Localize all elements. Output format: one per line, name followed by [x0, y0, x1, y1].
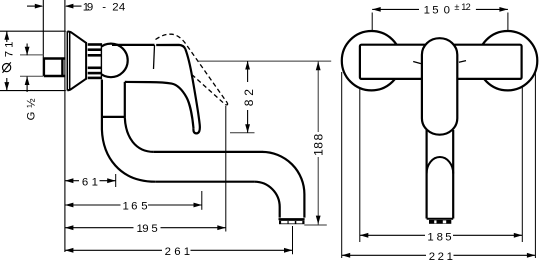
extension tick for 165 — [201, 191, 203, 210]
handle lower edge sweeping back to body — [125, 82, 194, 128]
spout column left edge — [101, 80, 103, 130]
right wall escutcheon — [478, 31, 537, 90]
wall line — [42, 0, 44, 57]
escutcheon cone — [67, 31, 86, 43]
dimension 61 — [65, 180, 79, 182]
spout bottom run — [155, 181, 254, 183]
flange bottom extension line — [0, 90, 66, 92]
dimension 195 — [65, 227, 134, 229]
185 extension lines — [359, 80, 361, 242]
left wall escutcheon — [342, 31, 401, 90]
spout end outer curve — [262, 152, 304, 218]
body column (front) left edge — [426, 130, 428, 219]
svg-text:±12: ±12 — [454, 2, 470, 12]
aerator hatched band (left view) — [279, 220, 305, 224]
spout outer bend — [102, 130, 155, 182]
spout end inner curve — [254, 182, 279, 218]
handle tick left — [413, 62, 421, 64]
dashed raised handle lower and tip — [193, 75, 228, 105]
G1/2 extension lines — [20, 54, 44, 56]
svg-text:185: 185 — [427, 231, 451, 243]
extension line for 195 (raised handle tip) — [225, 106, 227, 232]
150 extension lines — [371, 13, 373, 32]
dimension 19-24 — [27, 5, 82, 7]
dimension 185 — [360, 234, 425, 236]
handle front edge descending to tip — [185, 49, 200, 133]
handle capsule — [422, 38, 457, 135]
diameter symbol — [3, 64, 11, 72]
dimension 221 — [342, 254, 426, 256]
svg-text:150: 150 — [424, 4, 450, 16]
cone mouth edge — [85, 42, 87, 80]
body column (front) right edge — [452, 130, 454, 219]
221 extension lines (escutcheon outer edges) — [341, 72, 343, 258]
dimension G1/2 — [26, 44, 28, 56]
dashed raised handle arc and front — [156, 34, 228, 102]
extension tick for 61 at spout axis — [115, 174, 117, 187]
spout inner bend — [125, 117, 154, 151]
lever joint line — [154, 45, 155, 69]
dimension 165 — [65, 204, 121, 206]
svg-text:165: 165 — [123, 200, 148, 212]
ball joint circle — [94, 44, 128, 78]
union nut right edge — [100, 43, 102, 79]
dimension 188 bottom extension — [304, 224, 327, 226]
union nut bars — [88, 45, 102, 78]
dimension 261 — [65, 249, 162, 251]
G1/2 pipe stub square — [44, 59, 66, 77]
dimension 150 +-12 — [372, 8, 419, 10]
svg-text:221: 221 — [429, 251, 453, 263]
spout top run — [154, 151, 262, 153]
handle tick right — [459, 61, 466, 63]
spout outlet bottom line — [279, 218, 305, 220]
svg-text:19 - 24: 19 - 24 — [83, 2, 125, 14]
svg-text:188: 188 — [311, 134, 325, 156]
extension line for 261 (outlet axis) — [292, 226, 294, 254]
body top edge — [112, 44, 155, 46]
aerator hatched band (front view) — [429, 220, 451, 224]
escutcheon face plate — [66, 31, 68, 90]
column bottom line — [427, 218, 454, 220]
spout swivel joint line — [102, 116, 125, 118]
flange top extension line — [0, 30, 66, 32]
column dome arc — [427, 157, 454, 174]
spout column right edge — [124, 82, 126, 118]
handle top edge — [156, 45, 185, 49]
union nut body — [88, 43, 102, 80]
dimension 82 — [247, 61, 249, 82]
svg-text:195: 195 — [137, 223, 158, 235]
dimension 82 bottom extension — [230, 132, 255, 134]
dimension 188 — [317, 61, 319, 132]
svg-text:G ½: G ½ — [25, 98, 37, 121]
svg-text:261: 261 — [165, 246, 191, 258]
mixer body bar — [360, 45, 522, 79]
dimension dia 71 — [6, 31, 8, 42]
shared top extension line (82 and 188) — [197, 60, 331, 62]
extension line escutcheon face (full height) — [64, 0, 66, 252]
